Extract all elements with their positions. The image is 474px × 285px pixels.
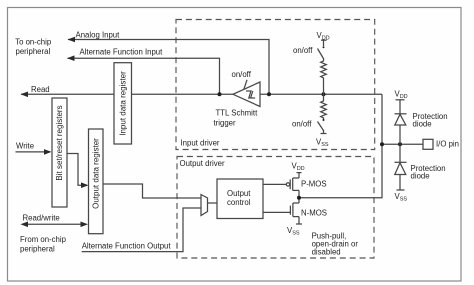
dashed box: Input driver [176,20,375,150]
register box Output data register [89,129,104,234]
block Output control [217,179,263,219]
svg-text:P-MOS: P-MOS [301,180,327,189]
transistor P-MOS [298,173,300,178]
node junction analog [267,92,271,96]
svg-text:Output data register: Output data register [91,138,100,209]
svg-text:trigger: trigger [214,118,237,127]
svg-text:I/O pin: I/O pin [436,139,459,148]
wire on/off control tick [244,80,247,90]
node junction pull resistors [322,92,326,96]
svg-text:Alternate Function Output: Alternate Function Output [82,241,172,250]
op-amp TTL Schmitt trigger triangle [233,82,260,107]
svg-text:Input data register: Input data register [118,71,127,136]
svg-text:Read/write: Read/write [23,214,60,223]
wire alternate function output path [82,208,201,252]
svg-text:Read: Read [31,85,50,94]
node junction diodes [398,142,402,146]
wire input line down to output line [299,94,382,197]
register box Bit set/reset registers [52,98,67,207]
svg-text:Write: Write [16,141,34,150]
svg-text:diode: diode [411,172,430,181]
svg-text:peripheral: peripheral [16,47,51,56]
arrowhead read/write left [21,222,29,228]
svg-text:on/off: on/off [232,70,252,79]
wire trigger to pin line [260,93,382,95]
switch on/off (pull-down) [323,119,325,121]
resistor pull-up [321,60,327,81]
wire mux output to output control [208,202,218,204]
mux output select trapezoid [201,195,208,216]
arrowhead write [44,149,52,155]
wire read line [21,93,114,95]
svg-text:VSS: VSS [287,226,300,237]
wire I/O pin line [382,143,423,145]
wire read/write double arrow [22,223,86,225]
wire output control to N-MOS gate [263,211,290,213]
svg-text:Alternate Function Input: Alternate Function Input [80,48,164,57]
wire VDD to switch [323,40,325,46]
wire main input line (register to trigger) [132,93,234,95]
svg-text:control: control [227,198,251,207]
wire resistor to node [323,81,325,95]
wire output data register to mux elbow [103,184,201,198]
svg-text:on/off: on/off [292,119,312,128]
arrowhead alternate function input [67,55,75,61]
svg-text:disabled: disabled [312,248,341,257]
resistor pull-down [321,100,327,120]
svg-text:VDD: VDD [292,161,305,172]
svg-text:on/off: on/off [293,46,313,55]
svg-text:From on-chip: From on-chip [20,235,67,244]
svg-text:Input driver: Input driver [181,138,220,147]
power VSS (protection) [397,189,405,191]
diode protection upper [399,100,401,114]
dashed box: Output driver [177,157,374,259]
wire write line [16,151,51,153]
wire node to pull-down resistor [323,94,325,100]
arrowhead read [21,92,29,98]
node junction output/input [380,142,384,146]
wire alternate function input [68,58,220,94]
svg-text:Bit set/reset registers: Bit set/reset registers [55,105,64,180]
svg-text:To on-chip: To on-chip [15,38,52,47]
svg-text:TTL Schmitt: TTL Schmitt [216,109,259,118]
diode protection lower [399,144,401,162]
wire output control to P-MOS gate [263,183,286,185]
svg-text:VDD: VDD [395,89,408,100]
svg-text:Analog Input: Analog Input [76,30,121,39]
arrowhead analog input [68,37,76,43]
arrowhead into output data register [81,182,89,188]
svg-text:N-MOS: N-MOS [301,208,327,217]
svg-text:Output: Output [227,189,251,198]
svg-text:diode: diode [413,120,432,129]
hysteresis symbol [246,91,255,98]
transistor N-MOS [293,202,299,204]
svg-text:peripheral: peripheral [20,244,55,253]
register box Input data register [114,63,132,144]
wire bit set/reset to output data register elbow [67,154,87,186]
svg-text:Output driver: Output driver [180,159,225,168]
wire analog input [68,40,269,95]
svg-text:VSS: VSS [316,138,329,149]
node junction alternate function input [218,92,222,96]
gate bubble P-MOS [286,183,289,186]
svg-text:VSS: VSS [395,192,408,203]
power VSS (N-MOS) [298,217,300,224]
node I/O pin square [423,139,433,149]
node output junction [297,196,301,200]
arrowhead read/write right [81,222,89,228]
power VSS (pull-down) [321,133,327,135]
